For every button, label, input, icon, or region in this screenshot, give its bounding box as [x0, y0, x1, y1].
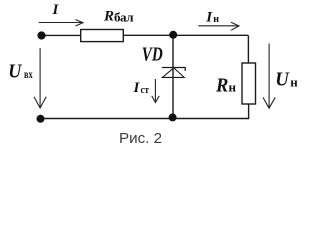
svg-text:R: R [215, 74, 228, 96]
svg-text:ст: ст [141, 84, 150, 96]
svg-text:бал: бал [114, 10, 134, 25]
svg-text:н: н [290, 74, 298, 89]
svg-text:R: R [103, 9, 114, 25]
svg-text:Рис. 2: Рис. 2 [119, 130, 162, 147]
svg-text:I: I [52, 2, 60, 18]
svg-text:вх: вх [24, 67, 33, 81]
svg-text:I: I [205, 9, 213, 25]
svg-text:U: U [275, 68, 290, 90]
svg-text:U: U [8, 61, 22, 83]
svg-text:I: I [133, 80, 141, 96]
svg-text:н: н [229, 80, 237, 95]
svg-text:н: н [213, 14, 219, 25]
svg-text:VD: VD [142, 44, 163, 66]
